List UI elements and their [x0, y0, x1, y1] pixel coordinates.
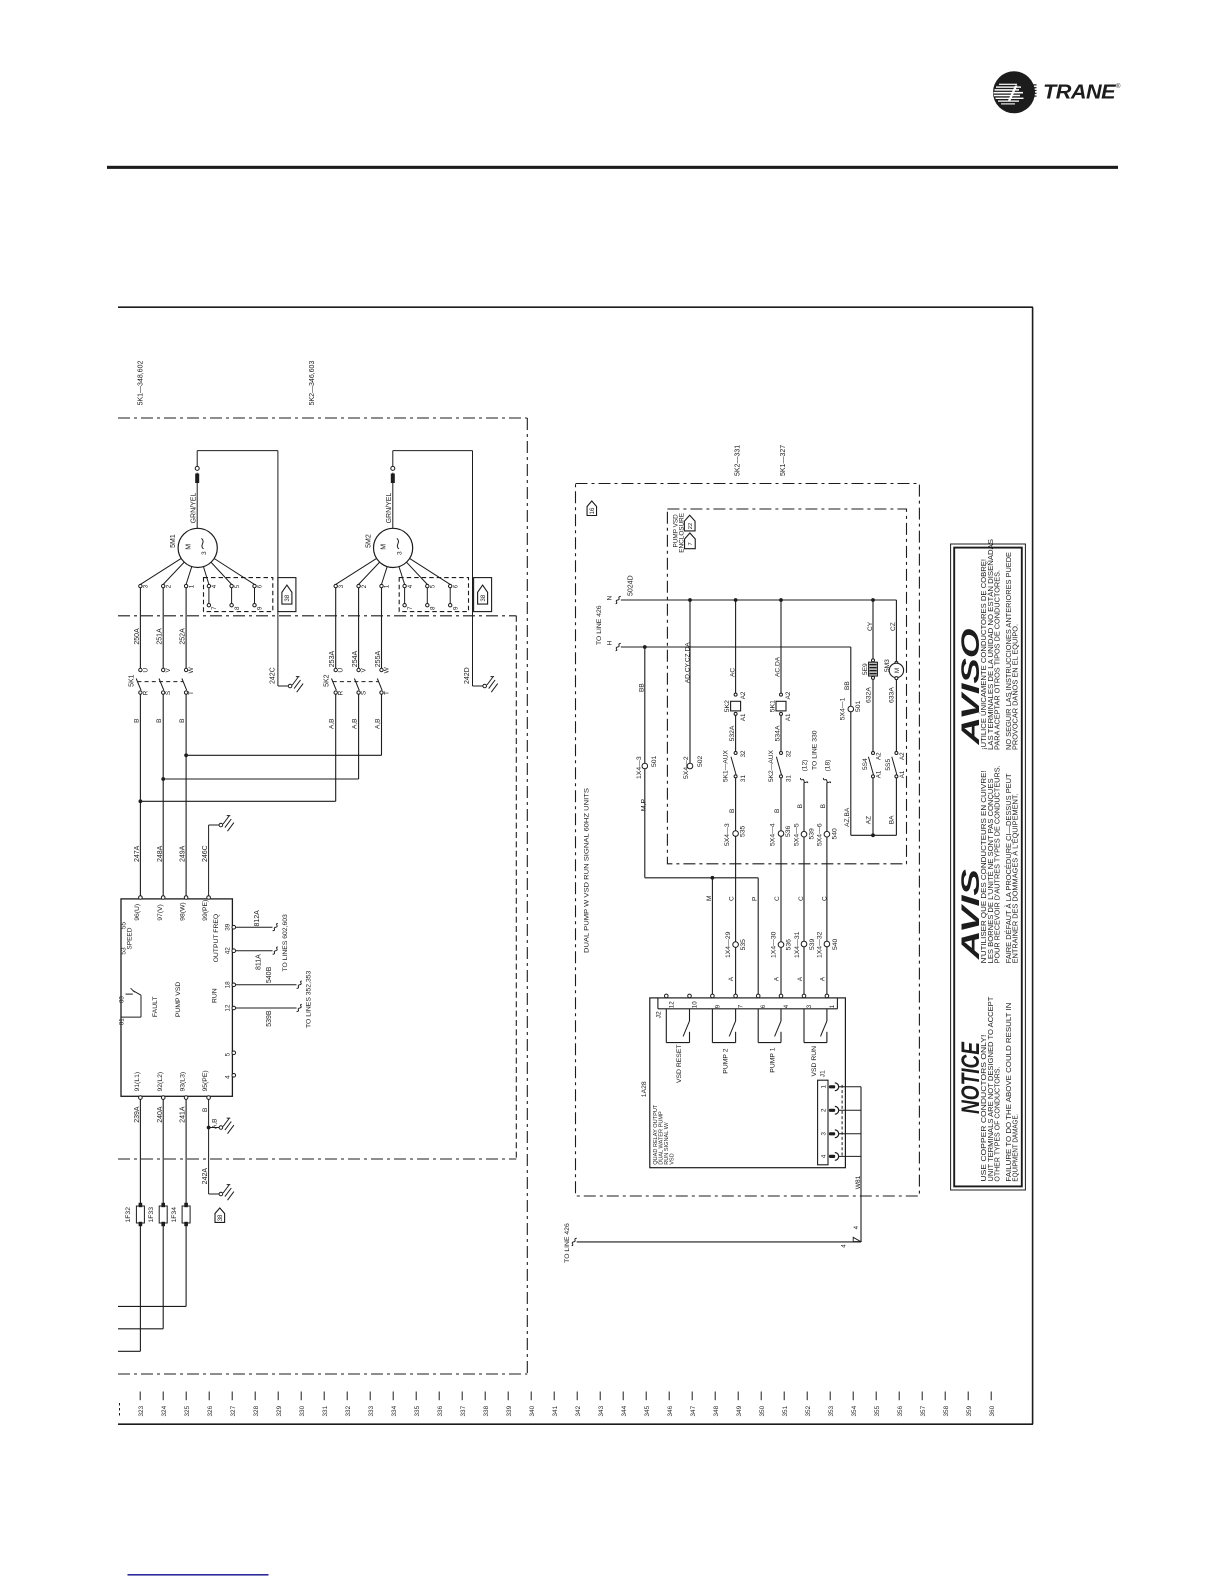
- svg-text:97(V): 97(V): [157, 904, 164, 921]
- 5M2 lead terminal 9: [449, 588, 451, 604]
- chassis ground for 242C: [288, 684, 292, 688]
- svg-text:5X4—3: 5X4—3: [724, 823, 731, 846]
- svg-text:A1: A1: [876, 770, 883, 778]
- 5M1 lead terminal 5: [211, 562, 232, 584]
- rung wire from N to coil 5K2: [734, 598, 738, 602]
- 5M1 lead terminal 3: [140, 558, 181, 584]
- svg-text:TO LINE 330: TO LINE 330: [811, 730, 818, 770]
- svg-text:1A28: 1A28: [641, 1081, 648, 1097]
- svg-text:1F32: 1F32: [125, 1207, 132, 1223]
- svg-text:BB: BB: [844, 681, 851, 690]
- 5M1 GRN/YEL ground lead with ring terminal: [196, 473, 198, 529]
- line number 348: [714, 1392, 716, 1401]
- terminal 5X4—3 (wire 535): [733, 831, 739, 837]
- svg-text:539: 539: [808, 828, 815, 840]
- svg-text:5S4: 5S4: [862, 758, 869, 770]
- line number 358: [944, 1392, 946, 1401]
- svg-text:3: 3: [396, 551, 403, 555]
- svg-text:TO LINES 352,353: TO LINES 352,353: [306, 970, 313, 1028]
- svg-text:6: 6: [452, 584, 459, 588]
- wire AZ: [872, 778, 874, 835]
- svg-text:22: 22: [688, 523, 694, 529]
- flag 16: [587, 501, 597, 516]
- line number 353: [829, 1392, 831, 1401]
- svg-text:A: A: [797, 976, 804, 981]
- line number 343: [599, 1392, 601, 1401]
- svg-text:326: 326: [207, 1405, 214, 1416]
- svg-text:343: 343: [598, 1405, 605, 1416]
- svg-text:242D: 242D: [464, 667, 471, 684]
- relay contact PUMP 2: [711, 1009, 713, 1043]
- VSD fault contact 01-03: [121, 1016, 142, 1018]
- 5M1 lead terminal 2: [163, 562, 184, 584]
- 5M1 lead terminal 6: [214, 558, 254, 584]
- svg-text:355: 355: [874, 1405, 881, 1416]
- svg-text:501: 501: [651, 755, 658, 767]
- line number 335: [415, 1392, 417, 1401]
- motor 5M1: [178, 528, 217, 567]
- terminal 5X4—5 (wire 539): [801, 831, 807, 837]
- svg-text:5K2—346,603: 5K2—346,603: [309, 361, 316, 406]
- contactor 5K2 pole U-R (wire 253A): [334, 668, 337, 671]
- line number 337: [461, 1392, 463, 1401]
- svg-text:POUR RECEVOIR D'AUTRES TYPE: POUR RECEVOIR D'AUTRES TYPES DE CONDUCTE…: [995, 765, 1002, 963]
- svg-text:B: B: [133, 719, 140, 723]
- switch 5S4 (A2-A1): [872, 752, 875, 755]
- svg-text:4: 4: [783, 1004, 790, 1008]
- contactor 5K1 pole V-S (wire 251A): [162, 668, 165, 671]
- svg-text:P: P: [752, 897, 759, 901]
- 5M1 lead terminal 7: [208, 588, 210, 604]
- svg-text:7: 7: [211, 606, 218, 610]
- wire branch to 5K2 with junction at x=186.1: [184, 753, 188, 757]
- svg-text:TO LINES 602,603: TO LINES 602,603: [282, 914, 289, 972]
- svg-text:5X4—6: 5X4—6: [816, 823, 823, 846]
- group boundary: DUAL PUMP W VSD RUN SIGNAL 60HZ UNITS: [576, 484, 920, 1197]
- svg-text:®: ®: [1116, 83, 1121, 90]
- wire 812A to lines 602,603: [236, 926, 273, 928]
- svg-text:T: T: [188, 691, 195, 695]
- J2 pin 10: [688, 994, 692, 998]
- svg-text:7: 7: [738, 1004, 745, 1008]
- svg-text:535: 535: [739, 825, 746, 837]
- svg-text:1X4—31: 1X4—31: [794, 931, 801, 958]
- svg-text:337: 337: [460, 1405, 467, 1416]
- svg-text:340: 340: [529, 1405, 536, 1416]
- svg-text:32: 32: [785, 750, 792, 757]
- terminal 5X4—4 (wire 536): [778, 831, 784, 837]
- svg-text:J1: J1: [819, 1070, 826, 1077]
- wire CZ from N rail: [895, 600, 897, 661]
- svg-text:540B: 540B: [266, 966, 273, 983]
- svg-text:¡UTILICE ÚNICAMENTE CONDUCTO: ¡UTILICE ÚNICAMENTE CONDUCTORES DE COBRE…: [979, 559, 988, 750]
- svg-text:358: 358: [943, 1405, 950, 1416]
- svg-text:H: H: [607, 640, 614, 645]
- svg-text:PUMP 2: PUMP 2: [723, 1048, 730, 1073]
- chassis ground for 242D: [483, 684, 487, 688]
- VSD terminal 18: [232, 983, 236, 987]
- line number 356: [898, 1392, 900, 1401]
- flag 38: [278, 578, 296, 612]
- svg-text:1: 1: [829, 1004, 836, 1008]
- terminal 5X4-2 (wire 502) rung: [688, 598, 692, 602]
- svg-text:6: 6: [760, 1004, 767, 1008]
- rung wire from N to coil 5K1: [779, 598, 783, 602]
- svg-text:323: 323: [138, 1405, 145, 1416]
- flag 7: [685, 533, 696, 549]
- relay board 1A28 QUAD RELAY OUTPUT: [650, 998, 846, 1168]
- svg-text:B: B: [729, 809, 736, 813]
- svg-text:1: 1: [820, 1085, 827, 1089]
- svg-text:TO LINE 426: TO LINE 426: [596, 605, 603, 645]
- wire 246C PE to chassis ground: [208, 825, 210, 896]
- svg-text:534A: 534A: [775, 725, 782, 741]
- svg-text:A: A: [728, 976, 735, 981]
- 5M2 lead terminal 3: [336, 558, 377, 584]
- svg-text:PROVOCAR DAÑOS EN EL EQUIP: PROVOCAR DAÑOS EN EL EQUIPO.: [1010, 624, 1019, 750]
- svg-text:LAS TERMINALES DE LA UNIDA: LAS TERMINALES DE LA UNIDAD NO ESTÁN DIS…: [986, 539, 995, 750]
- svg-text:38: 38: [284, 594, 291, 601]
- wire B to terminal 5X4—3: [735, 778, 737, 831]
- svg-text:353: 353: [828, 1405, 835, 1416]
- terminal 1X4—30 (wire 536): [778, 942, 784, 948]
- svg-text:LES BORNES DE L'UNITÉ NE: LES BORNES DE L'UNITÉ NE SONT PAS CONÇUE…: [986, 778, 995, 963]
- line number 338: [484, 1392, 486, 1401]
- svg-text:31: 31: [740, 775, 747, 782]
- contactor 5K1 linkage + label: [137, 681, 183, 683]
- line number 359: [967, 1392, 969, 1401]
- aux contact 5K2—AUX (31-32): [780, 752, 783, 755]
- svg-text:98(W): 98(W): [180, 902, 187, 921]
- connector J1: [818, 1080, 828, 1165]
- svg-text:V: V: [361, 667, 368, 672]
- Trane logo: [993, 71, 1037, 113]
- svg-text:U: U: [142, 668, 149, 673]
- svg-text:329: 329: [276, 1405, 283, 1416]
- svg-text:TRANE: TRANE: [1043, 81, 1117, 104]
- svg-text:4: 4: [211, 584, 218, 588]
- svg-text:10: 10: [692, 1001, 699, 1008]
- 5M1 lead terminal 4: [203, 567, 208, 585]
- VSD output wires 247A/248A/249A: [139, 694, 141, 897]
- svg-text:(18): (18): [824, 760, 831, 772]
- line number 350: [760, 1392, 762, 1401]
- svg-text:A,B: A,B: [375, 719, 382, 729]
- svg-text:5K2: 5K2: [324, 674, 331, 687]
- svg-text:5M1: 5M1: [170, 534, 177, 548]
- line number 341: [553, 1392, 555, 1401]
- svg-text:5X4—1: 5X4—1: [840, 697, 847, 720]
- svg-text:350: 350: [759, 1405, 766, 1416]
- svg-text:7: 7: [688, 542, 694, 545]
- svg-text:341: 341: [552, 1405, 559, 1416]
- svg-text:16: 16: [590, 507, 596, 514]
- contactor 5K1 pole W-T (wire 252A): [184, 668, 187, 671]
- VSD terminal 39: [232, 925, 236, 929]
- aux contact 5K1—AUX (31-32): [734, 752, 737, 755]
- motor 5M3: [895, 661, 898, 664]
- svg-text:5K2—AUX: 5K2—AUX: [768, 750, 775, 782]
- svg-text:352: 352: [805, 1405, 812, 1416]
- svg-text:A2: A2: [876, 752, 883, 760]
- svg-text:5K2—331: 5K2—331: [734, 445, 741, 476]
- line number 360: [990, 1392, 992, 1401]
- line number 332: [346, 1392, 348, 1401]
- wire CY from N rail: [871, 598, 875, 602]
- svg-text:FAULT: FAULT: [152, 996, 159, 1017]
- wire BA: [895, 778, 897, 835]
- wire 811A to lines 602,603: [236, 950, 273, 952]
- svg-text:247A: 247A: [134, 845, 141, 862]
- line number 355: [875, 1392, 877, 1401]
- contactor 5K2 linkage + label: [333, 681, 379, 683]
- svg-text:357: 357: [920, 1405, 927, 1416]
- svg-text:242C: 242C: [269, 667, 276, 684]
- svg-text:AC,DA: AC,DA: [775, 656, 782, 677]
- svg-text:255A: 255A: [375, 651, 382, 668]
- wire 540B to lines 352,353: [236, 984, 297, 986]
- svg-text:250A: 250A: [134, 628, 141, 645]
- svg-text:3: 3: [338, 584, 345, 588]
- svg-text:9: 9: [452, 606, 459, 610]
- svg-text:501: 501: [855, 700, 862, 712]
- wire 242C: [197, 450, 278, 452]
- svg-text:AZ: AZ: [865, 816, 872, 824]
- fuse 1F34: [185, 1099, 187, 1306]
- VSD terminal 99(PE): [207, 896, 211, 900]
- svg-text:4: 4: [407, 584, 414, 588]
- svg-text:DUAL PUMP W VSD RUN SIGNA: DUAL PUMP W VSD RUN SIGNAL 60HZ UNITS: [583, 787, 590, 953]
- svg-text:EQUIPMENT DAMAGE.: EQUIPMENT DAMAGE.: [1012, 1114, 1019, 1182]
- 5M1 lead terminal 8: [231, 588, 233, 604]
- svg-text:CY: CY: [867, 621, 874, 631]
- line number 327: [231, 1392, 233, 1401]
- svg-text:540: 540: [831, 828, 838, 840]
- svg-text:347: 347: [690, 1405, 697, 1416]
- svg-text:5K2: 5K2: [724, 700, 731, 712]
- relay contact VSD RESET: [665, 1009, 667, 1043]
- svg-text:V: V: [165, 667, 172, 672]
- terminal 1X4—32 (wire 540): [824, 941, 830, 947]
- svg-text:5K1—AUX: 5K1—AUX: [722, 750, 729, 782]
- svg-text:OTHER TYPES OF CONDUCTORS.: OTHER TYPES OF CONDUCTORS.: [995, 1067, 1002, 1182]
- flag 38: [215, 1208, 225, 1222]
- starter panel enclosure boundary (dash-dot): [118, 417, 527, 419]
- wire to line 426 (bottom): [577, 1241, 861, 1243]
- J2 pin 12: [665, 994, 669, 998]
- svg-text:AC: AC: [729, 668, 736, 677]
- svg-text:4: 4: [820, 1154, 827, 1158]
- 5M2 lead terminal 2: [359, 562, 380, 584]
- svg-text:253A: 253A: [329, 651, 336, 668]
- motor lead wires: [139, 588, 141, 669]
- svg-text:5K1—348,602: 5K1—348,602: [138, 361, 145, 406]
- svg-text:USE COPPER CONDUCTORS ONLY!: USE COPPER CONDUCTORS ONLY!: [981, 1035, 988, 1182]
- svg-text:348: 348: [713, 1405, 720, 1416]
- svg-text:92(L2): 92(L2): [157, 1072, 164, 1092]
- VSD terminal 93(L3): [184, 1096, 188, 1100]
- svg-text:5E9: 5E9: [862, 663, 869, 675]
- svg-text:A2: A2: [785, 691, 792, 699]
- svg-text:632A: 632A: [865, 687, 872, 703]
- wire 633A: [895, 680, 897, 752]
- svg-text:W: W: [188, 666, 195, 673]
- svg-text:8: 8: [430, 606, 437, 610]
- line number 349: [737, 1392, 739, 1401]
- line number 336: [438, 1392, 440, 1401]
- J2 pin 3: [802, 994, 806, 998]
- terminal 1X4—29 (wire 535): [733, 942, 739, 948]
- wire 242D: [393, 450, 473, 452]
- svg-text:1X4—3: 1X4—3: [636, 756, 643, 779]
- svg-text:AZ,BA: AZ,BA: [844, 807, 851, 827]
- line number 339: [507, 1392, 509, 1401]
- svg-text:VSD RUN: VSD RUN: [811, 1046, 818, 1077]
- svg-text:B: B: [797, 804, 804, 808]
- svg-text:A2: A2: [740, 691, 747, 699]
- svg-text:6: 6: [257, 584, 264, 588]
- svg-text:W: W: [384, 666, 391, 673]
- svg-text:M: M: [894, 668, 901, 673]
- line number 324: [162, 1392, 164, 1401]
- svg-text:A: A: [820, 976, 827, 981]
- svg-text:333: 333: [368, 1405, 375, 1416]
- fuse 1F32: [139, 1099, 141, 1351]
- svg-text:252A: 252A: [180, 628, 187, 645]
- node N rail (wire 5024D) from line 426: [621, 599, 897, 601]
- svg-text:CZ: CZ: [890, 622, 897, 631]
- svg-text:502: 502: [697, 755, 704, 767]
- 5M1 lead terminal 1: [186, 567, 192, 585]
- line number 351: [783, 1392, 785, 1401]
- svg-text:327: 327: [230, 1405, 237, 1416]
- svg-text:S: S: [361, 690, 368, 695]
- svg-text:03: 03: [119, 996, 126, 1003]
- svg-text:5K1—327: 5K1—327: [780, 445, 787, 476]
- svg-text:5M3: 5M3: [884, 659, 891, 672]
- svg-text:536: 536: [785, 939, 792, 951]
- svg-text:U: U: [338, 668, 345, 673]
- svg-text:VSD RESET: VSD RESET: [676, 1044, 683, 1083]
- svg-text:324: 324: [161, 1405, 168, 1416]
- partial line-number tick 322: [119, 1403, 121, 1417]
- svg-text:GRN/YEL: GRN/YEL: [191, 493, 198, 524]
- header rule: [107, 166, 1118, 169]
- line number 344: [622, 1392, 624, 1401]
- svg-text:GRN/YEL: GRN/YEL: [386, 493, 393, 524]
- svg-text:C: C: [798, 896, 805, 901]
- svg-text:351: 351: [782, 1405, 789, 1416]
- svg-text:B: B: [774, 809, 781, 813]
- svg-text:31: 31: [785, 775, 792, 782]
- svg-text:354: 354: [851, 1405, 858, 1416]
- svg-text:3: 3: [820, 1132, 827, 1136]
- line number 326: [208, 1392, 210, 1401]
- drive unit PUMP VSD box: [121, 899, 232, 1096]
- svg-text:A,B: A,B: [329, 719, 336, 729]
- svg-text:5K1: 5K1: [769, 700, 776, 712]
- terminal 5X4-1 (wire 501/BB): [850, 647, 852, 706]
- svg-text:1F34: 1F34: [171, 1207, 178, 1223]
- svg-text:532A: 532A: [729, 725, 736, 741]
- drawing frame border: [118, 306, 1033, 308]
- svg-text:5X4—4: 5X4—4: [770, 823, 777, 846]
- flag 22: [684, 515, 695, 531]
- svg-text:W81: W81: [855, 1175, 862, 1189]
- svg-text:S: S: [165, 690, 172, 695]
- svg-text:93(L3): 93(L3): [180, 1072, 187, 1092]
- relay coil 5K1 (A2-A1): [780, 693, 783, 696]
- line number 352: [806, 1392, 808, 1401]
- board edge dashed line at J1: [841, 1085, 843, 1157]
- wire W81 bus: [860, 1087, 862, 1242]
- relay contact VSD RUN: [803, 1009, 805, 1043]
- svg-text:J2: J2: [655, 1011, 662, 1018]
- svg-text:A2: A2: [899, 752, 906, 760]
- wire B to terminal 5X4—4: [780, 778, 782, 831]
- wire 534A: [780, 715, 782, 751]
- line number 354: [852, 1392, 854, 1401]
- svg-text:5M2: 5M2: [365, 534, 372, 548]
- svg-text:R: R: [338, 690, 345, 695]
- inner unit panel boundary (dash-dot): [118, 615, 516, 617]
- svg-text:5: 5: [430, 584, 437, 588]
- svg-text:12: 12: [225, 1004, 232, 1012]
- svg-text:BB: BB: [638, 683, 645, 692]
- svg-text:M: M: [185, 544, 192, 550]
- J2 pin 7: [734, 994, 738, 998]
- svg-text:1X4—32: 1X4—32: [817, 931, 824, 958]
- svg-text:B: B: [820, 804, 827, 808]
- terminal 1X4-3 (wire 501) H branch: [643, 645, 647, 649]
- wire 632A: [872, 679, 874, 751]
- heater 5E9: [872, 659, 875, 662]
- 5M2 lead terminal 6: [410, 558, 451, 584]
- svg-text:C: C: [821, 896, 828, 901]
- svg-text:349: 349: [736, 1405, 743, 1416]
- svg-text:PARA ACEPTAR OTROS TIPOS D: PARA ACEPTAR OTROS TIPOS DE CONDUCTORES.: [995, 570, 1002, 750]
- line number 323: [139, 1392, 141, 1401]
- svg-text:811A: 811A: [255, 954, 262, 970]
- svg-text:B: B: [156, 719, 163, 723]
- svg-text:345: 345: [644, 1405, 651, 1416]
- wire 540 from line 330 (18): [823, 778, 830, 783]
- svg-text:VSD: VSD: [670, 1153, 676, 1165]
- svg-text:535: 535: [740, 939, 747, 951]
- svg-text:335: 335: [414, 1405, 421, 1416]
- svg-text:356: 356: [897, 1405, 904, 1416]
- VSD terminal 97(V): [161, 896, 165, 900]
- contactor 5K2 pole W-T (wire 255A): [380, 668, 383, 671]
- line number 329: [277, 1392, 279, 1401]
- svg-text:812A: 812A: [254, 910, 261, 927]
- junction arrow + wire gauge 4: [853, 1237, 861, 1241]
- line number 345: [645, 1392, 647, 1401]
- svg-text:3: 3: [806, 1004, 813, 1008]
- svg-text:332: 332: [345, 1405, 352, 1416]
- svg-text:8: 8: [234, 606, 241, 610]
- contactor 5K1 pole U-R (wire 250A): [139, 668, 142, 671]
- wire branch to 5K2 with junction at x=163.2: [161, 777, 165, 781]
- svg-text:633A: 633A: [888, 687, 895, 703]
- svg-text:248A: 248A: [157, 845, 164, 862]
- svg-text:38: 38: [480, 594, 487, 601]
- svg-text:330: 330: [299, 1405, 306, 1416]
- svg-text:18: 18: [225, 981, 232, 989]
- wire 539B to lines 352,353: [236, 1007, 297, 1009]
- line number 331: [323, 1392, 325, 1401]
- wire 532A: [735, 715, 737, 751]
